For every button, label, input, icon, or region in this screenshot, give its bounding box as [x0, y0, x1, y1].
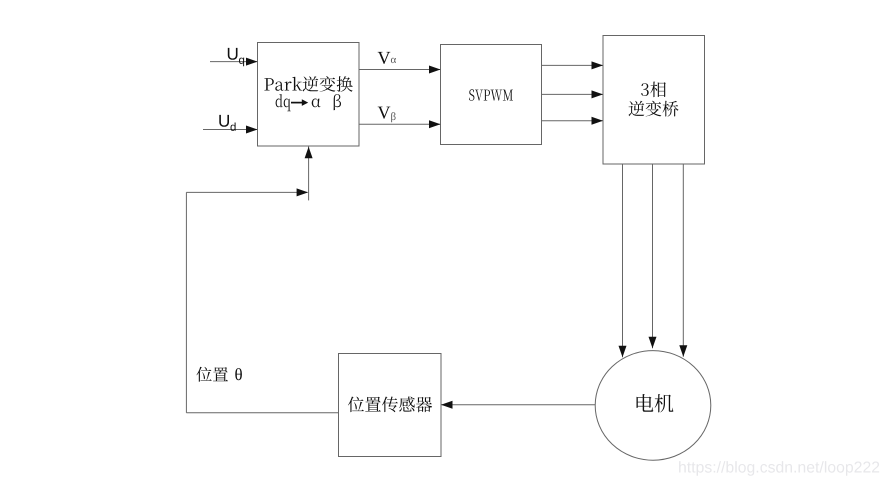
block SVPWM [441, 45, 542, 145]
label Park逆变换 [264, 76, 352, 92]
wire SVPWM to bridge 1 [542, 61, 604, 69]
block Park inverse transform Park逆变换 dq to alpha beta [258, 43, 360, 147]
wire sensor output to feedback corner [186, 412, 338, 414]
motor circle (电机) [595, 351, 711, 461]
label Uq [228, 48, 244, 66]
label beta [334, 94, 341, 110]
wire motor to position sensor [441, 401, 595, 409]
block 3-phase inverter bridge (3相逆变桥) [603, 36, 705, 165]
label V beta [378, 107, 396, 123]
wire Uq input [210, 58, 258, 66]
label 位置传感器 [348, 397, 432, 413]
wire bridge to motor phase B [649, 164, 657, 348]
wire V alpha [359, 66, 441, 74]
label dq [276, 94, 291, 111]
wire feedback horizontal to Park [186, 188, 308, 196]
label Ud [219, 115, 235, 131]
wire bridge to motor phase A [619, 164, 627, 357]
wire SVPWM to bridge 3 [542, 117, 604, 125]
wire Ud input [203, 126, 258, 134]
wire feedback vertical [185, 192, 187, 412]
block position sensor (位置传感器) [339, 354, 442, 457]
label V alpha [378, 52, 396, 64]
watermark text blog csdn loop222 [679, 461, 879, 476]
label 位置 theta [196, 367, 242, 382]
label 电机 [637, 394, 674, 412]
label arrow glyph in dq to alpha beta [291, 99, 308, 106]
wire theta into Park bottom [305, 147, 313, 201]
label 逆变桥 [629, 101, 679, 117]
label SVPWM [469, 89, 513, 100]
wire SVPWM to bridge 2 [542, 90, 604, 98]
label 3相 [641, 82, 666, 98]
wire V beta [359, 120, 441, 128]
label alpha [312, 99, 321, 108]
wire bridge to motor phase C [679, 164, 687, 357]
